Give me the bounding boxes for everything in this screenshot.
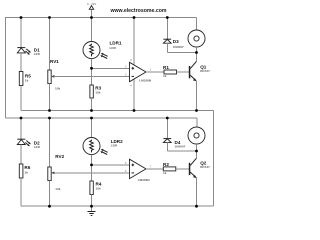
resistor R1	[163, 65, 177, 78]
wire RV1 wiper to op-amp pin2	[54, 75, 130, 77]
wire op-amp2 output	[146, 168, 163, 170]
wire LDR1 top	[91, 18, 93, 42]
node Q2 collector	[195, 150, 198, 153]
transistor Q1	[189, 61, 210, 81]
wire R1 to Q1 base	[177, 71, 189, 73]
svg-text:LDR1: LDR1	[110, 40, 122, 45]
potentiometer RV1	[48, 59, 61, 90]
node B LDR2-R4	[90, 164, 93, 167]
wire D2 to R6	[20, 145, 22, 165]
wire D2 branch top	[20, 118, 22, 139]
wire D4 to collector node	[167, 150, 196, 152]
wire R5 to ground rail	[20, 86, 22, 111]
svg-text:D3: D3	[173, 39, 179, 44]
op-amp U1:B	[125, 159, 152, 182]
wire Q1 collector up	[196, 53, 198, 62]
wire Q2 collector up	[196, 151, 198, 158]
svg-text:10k: 10k	[55, 187, 60, 191]
wire channel2 ground rail	[21, 205, 214, 207]
wire RV2 wiper to op-amp pin6	[54, 172, 130, 174]
wire D3 to collector node	[167, 52, 196, 54]
LED D2	[17, 139, 40, 149]
wire R2 to Q2 base	[176, 168, 189, 170]
LDR2	[83, 138, 123, 155]
resistor R2	[163, 162, 176, 175]
svg-text:BC547: BC547	[200, 165, 210, 169]
wire VCC2 rail	[6, 117, 198, 119]
node GND1-Q1e	[195, 109, 198, 112]
svg-text:LDR: LDR	[110, 46, 117, 50]
svg-text:1N4007: 1N4007	[173, 45, 184, 49]
node VCC2-D4	[166, 117, 169, 120]
svg-text:1k: 1k	[163, 74, 167, 78]
svg-text:1k: 1k	[24, 170, 28, 174]
buzzer BZ1	[188, 18, 205, 53]
svg-text:RV2: RV2	[55, 154, 64, 159]
node VCC1-LDR1	[90, 16, 93, 19]
wire LDR1 bottom to node A	[91, 59, 93, 69]
svg-text:10k: 10k	[55, 86, 60, 90]
svg-text:RV1: RV1	[50, 59, 59, 64]
node VCC1-pin8	[133, 16, 136, 19]
wire RV2 bottom	[49, 181, 51, 207]
node A LDR1-R3	[90, 67, 93, 70]
LDR1	[83, 40, 122, 58]
node VCC2-RV2	[48, 117, 51, 120]
svg-text:LDR: LDR	[111, 144, 118, 148]
wire LDR2 bottom to node B	[91, 155, 93, 165]
resistor R6	[19, 164, 30, 178]
node Q1 collector	[195, 51, 198, 54]
wire R3 bottom	[91, 98, 93, 111]
node VCC1-D3	[166, 16, 169, 19]
svg-text:LED: LED	[34, 52, 41, 56]
node GND2-RV2	[48, 205, 51, 208]
potentiometer RV2	[48, 154, 65, 191]
svg-text:LM358N: LM358N	[139, 79, 152, 83]
wire node A to op-amp pin3	[92, 67, 130, 69]
wire D1 branch top	[20, 18, 22, 48]
op-amp U1:A	[125, 18, 152, 111]
wire node B to op-amp pin5	[92, 164, 130, 166]
node VCC1-D1	[20, 16, 23, 19]
wire LDR2 top	[91, 118, 93, 138]
buzzer BZ2	[188, 118, 205, 151]
svg-text:10k: 10k	[95, 91, 100, 95]
wire op-amp1 output	[146, 71, 164, 73]
node GND1-R3	[90, 109, 93, 112]
wire right rail	[213, 111, 215, 207]
ground	[88, 206, 96, 215]
svg-text:10k: 10k	[96, 187, 101, 191]
resistor R3	[90, 85, 102, 98]
wire RV2 top	[49, 118, 51, 167]
wire Q2 emitter down	[196, 178, 198, 207]
resistor R5	[19, 72, 31, 86]
svg-text:BC547: BC547	[200, 69, 210, 73]
node GND1-RV1	[48, 109, 51, 112]
wire R6 to ground rail	[20, 178, 22, 206]
LED D1	[17, 47, 40, 56]
wire Q1 emitter down	[196, 81, 198, 111]
node GND1-pin4	[133, 109, 136, 112]
transistor Q2	[189, 158, 210, 178]
wire VCC1 top rail with left rail down	[6, 18, 197, 119]
wire RV1 bottom	[49, 84, 51, 111]
wire node A down to R3	[91, 68, 93, 85]
wire node B down to R4	[91, 165, 93, 181]
svg-text:1N4007: 1N4007	[175, 144, 186, 148]
diode D3	[163, 18, 184, 53]
resistor R4	[90, 181, 102, 195]
svg-text:LED: LED	[34, 145, 41, 149]
svg-text:R1: R1	[163, 65, 169, 70]
wire D1 to R5	[20, 53, 22, 72]
wire R4 bottom	[91, 195, 93, 207]
node VCC1-RV1	[48, 16, 51, 19]
node GND2-R4	[90, 205, 93, 208]
power flag B1	[87, 2, 96, 18]
diode D4	[163, 118, 185, 151]
node VCC2-LDR2	[90, 117, 93, 120]
node GND2-Q2e	[195, 205, 198, 208]
svg-text:R2: R2	[163, 162, 169, 167]
svg-text:1k: 1k	[25, 78, 29, 82]
wire RV1 top	[49, 18, 51, 71]
svg-text:1k: 1k	[163, 171, 167, 175]
svg-text:www.electrosome.com: www.electrosome.com	[109, 8, 166, 14]
svg-text:LM358N: LM358N	[138, 178, 151, 182]
wire channel1 ground rail	[21, 110, 214, 112]
svg-text:R3: R3	[95, 85, 101, 90]
node VCC2-D2	[20, 117, 23, 120]
